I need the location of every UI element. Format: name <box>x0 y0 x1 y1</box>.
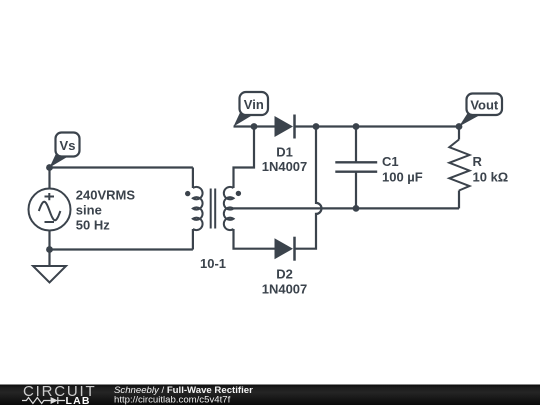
wire source top lead <box>48 168 50 189</box>
svg-text:240VRMS: 240VRMS <box>76 187 136 202</box>
svg-text:1N4007: 1N4007 <box>262 159 308 174</box>
ground <box>33 266 66 283</box>
node ground junction dot <box>46 246 53 253</box>
transformer secondary winding <box>224 187 234 230</box>
svg-text:1N4007: 1N4007 <box>262 282 308 297</box>
wire primary bottom feed <box>192 229 194 250</box>
node C1 bottom junction dot <box>353 205 360 212</box>
diode D2 <box>262 237 308 297</box>
value label 240VRMS sine 50 Hz <box>76 187 136 232</box>
wire R bottom feed <box>458 191 460 209</box>
node Vs junction dot <box>46 164 53 171</box>
wire top rail <box>234 125 275 127</box>
phase dot secondary <box>236 191 241 196</box>
wire Vs node to primary top <box>50 166 193 168</box>
flag Vout <box>459 94 502 127</box>
wire R top feed <box>458 127 460 140</box>
flag Vs <box>50 133 80 168</box>
resistor R <box>449 140 508 191</box>
transformer core <box>211 189 216 229</box>
wire secondary bottom to D2 <box>234 229 275 249</box>
wire secondary top jog <box>234 127 255 189</box>
node C1 top junction dot <box>353 123 360 130</box>
flag Vin <box>234 92 269 127</box>
svg-text:Vout: Vout <box>470 97 499 112</box>
wire D1 cathode to Vout <box>295 125 460 127</box>
wire C1 top feed <box>355 127 357 163</box>
svg-text:C1: C1 <box>382 154 399 169</box>
wire C1 bottom feed <box>355 172 357 209</box>
svg-text:sine: sine <box>76 202 102 217</box>
svg-text:50 Hz: 50 Hz <box>76 218 110 233</box>
node Vout junction dot <box>456 123 463 130</box>
logo resistor-diode glyph <box>22 397 65 404</box>
wire primary top feed <box>192 168 194 189</box>
wire D2 cathode with hop over center tap <box>295 127 322 249</box>
svg-text:D2: D2 <box>276 267 293 282</box>
svg-text:R: R <box>473 154 483 169</box>
phase dot primary <box>185 191 190 196</box>
svg-text:D1: D1 <box>276 144 293 159</box>
wire ground feed <box>48 250 50 267</box>
voltage source Vs <box>29 189 71 231</box>
svg-text:Vs: Vs <box>60 138 76 153</box>
wire bottom rail to source <box>50 248 193 250</box>
diode D1 <box>262 115 308 175</box>
svg-text:100 µF: 100 µF <box>382 169 423 184</box>
wire source bottom lead <box>48 231 50 250</box>
svg-text:10 kΩ: 10 kΩ <box>473 169 509 184</box>
transformer T1 primary winding <box>193 187 203 230</box>
svg-text:10-1: 10-1 <box>200 256 226 271</box>
svg-text:LAB: LAB <box>66 395 91 405</box>
wire center tap rail <box>234 207 460 209</box>
node Vin junction dot <box>251 123 258 130</box>
svg-text:Vin: Vin <box>244 97 264 112</box>
capacitor C1 <box>335 154 422 184</box>
svg-text:http://circuitlab.com/c5v4t7f: http://circuitlab.com/c5v4t7f <box>114 395 231 405</box>
node D2 branch junction dot <box>313 123 320 130</box>
